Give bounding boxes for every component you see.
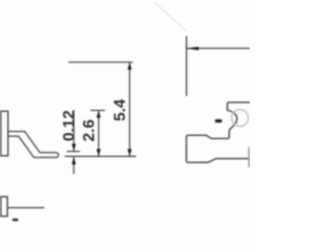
dimension 0.12: up arrow	[72, 157, 76, 164]
dimension 2.6: up arrow	[97, 111, 101, 118]
dimension 5.4: up arrow	[128, 62, 132, 69]
dimension 5.4: shaft	[129, 62, 131, 156]
bottom-left: small dash	[14, 219, 17, 222]
dimension 2.6: down arrow	[97, 149, 101, 156]
bottom-left: small rectangle	[1, 197, 8, 217]
faint circle (boss seen face-on)	[232, 110, 249, 127]
right view: vertical extension line	[186, 36, 188, 96]
dark dash (polarity mark)	[217, 119, 221, 122]
svg-text:5.4: 5.4	[112, 99, 129, 121]
right view: horizontal dimension line (cut off at right)	[187, 47, 251, 49]
faint projection diagonal	[154, 2, 186, 31]
dimension 0.12: down arrow	[72, 144, 76, 151]
top extension line for 5.4	[69, 61, 134, 63]
right edge vertical line	[248, 147, 250, 167]
baseline (seating plane) extension line	[65, 155, 136, 157]
left view: LED body edge rectangle	[1, 111, 8, 156]
right view: housing outline	[186, 102, 250, 162]
svg-text:2.6: 2.6	[81, 119, 98, 141]
dimension 2.6: shaft	[98, 110, 100, 156]
dimension 0.12: lower shaft	[73, 157, 75, 174]
bottom-left: horizontal lead line	[7, 207, 44, 209]
dimension 0.12: upper shaft	[73, 110, 75, 151]
svg-text:0.12: 0.12	[61, 110, 78, 141]
right view: left arrow of horizontal dimension	[187, 47, 199, 51]
dimension 2.6: top tick	[91, 109, 106, 111]
dimension 0.12: upper tick	[67, 150, 81, 152]
left view: gull-wing lead strip outline	[9, 131, 59, 157]
dimension 5.4: down arrow	[128, 149, 132, 156]
